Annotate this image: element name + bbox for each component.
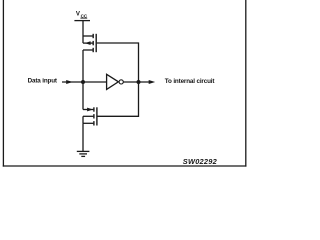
frame (figure border, decorative) (3, 0, 247, 167)
power rail VCC bar (74, 20, 90, 22)
node B junction (137, 80, 141, 84)
arrow to internal circuit (149, 80, 156, 84)
arrow input signal direction (66, 80, 73, 84)
ground (77, 151, 90, 156)
transistor Q1 (p-channel bus-hold pull-up) (83, 34, 96, 52)
wire inverter output to node B and internal circuit (123, 81, 149, 83)
wire data input line (62, 81, 107, 83)
transistor Q2 (n-channel bus-hold pull-down) (83, 107, 97, 125)
node A junction (81, 80, 85, 84)
wire Q1 gate feedback (node B up and left to Q1 gate) (97, 43, 139, 82)
wire VCC bar to Q1 source (82, 21, 84, 36)
svg-text:To internal circuit: To internal circuit (165, 78, 216, 85)
wire Q1 drain to node A (82, 50, 84, 82)
wire node A down to Q2 drain (82, 82, 84, 110)
net label VCC (76, 11, 88, 19)
wire Q2 source to ground (82, 123, 84, 151)
svg-text:Data input: Data input (28, 77, 58, 84)
wire Q2 gate feedback (node B down and left to Q2 gate) (98, 82, 139, 116)
inverter U1 (107, 74, 124, 89)
svg-text:SW02292: SW02292 (183, 157, 218, 166)
